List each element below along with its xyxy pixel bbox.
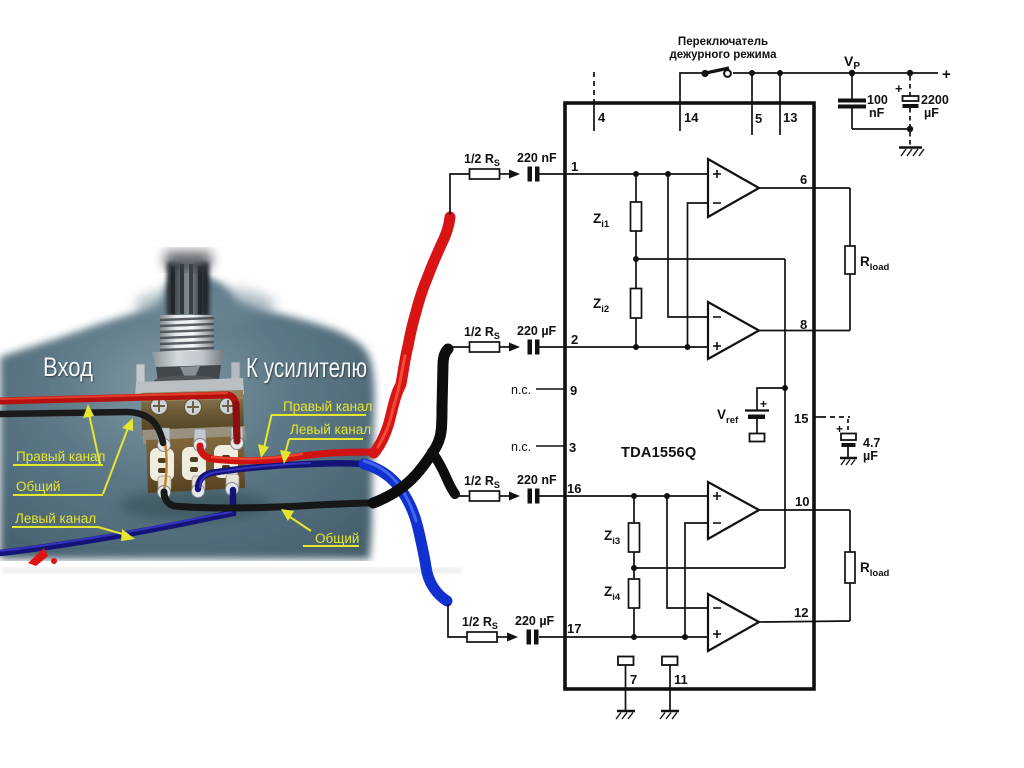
- potentiometer threaded bushing: [160, 315, 214, 355]
- potentiometer lower body (tan with embossed marks): [146, 436, 245, 493]
- wire: 100nF cap to ground rail: [851, 109, 853, 130]
- label: Левый канал (right side) with leader arrow to navy wire: [280, 422, 371, 464]
- svg-text:2200: 2200: [921, 93, 949, 107]
- white mask below photo area: [0, 561, 520, 606]
- impedance Zi4: [629, 579, 640, 608]
- middle terminal lugs with solder balls: [158, 427, 244, 452]
- wire cap to IC pin 17: [539, 636, 708, 638]
- svg-text:Вход: Вход: [43, 352, 93, 382]
- junction dot pin13 top: [777, 70, 783, 76]
- svg-text:7: 7: [630, 672, 637, 687]
- arrow into C5: [509, 492, 520, 501]
- IC U1 TDA1556Q outline: [565, 103, 814, 689]
- wire: Zi1 bottom to Zi2 top: [635, 231, 637, 289]
- label: Правый канал (left side) with leader arrow to red wire: [13, 404, 105, 465]
- wire: thick red cable rising to pin 1 input: [374, 217, 450, 453]
- wire: black fork tip to resistor: [451, 495, 470, 497]
- wire: Rload1 top lead: [849, 188, 851, 246]
- input network row pin 16: [451, 491, 708, 501]
- pin 13 stub: [779, 73, 781, 135]
- op-amp A4: [708, 594, 759, 651]
- svg-text:Общий: Общий: [315, 531, 359, 546]
- bottom terminal lugs with solder balls: [158, 474, 240, 499]
- wire: standby switch to Vp rail: [733, 72, 938, 74]
- wire: Zi4 bottom to pin17 rail: [633, 608, 635, 637]
- svg-text:µF: µF: [863, 449, 878, 463]
- svg-text:6: 6: [800, 172, 807, 187]
- junction dot pin1/Zi1: [633, 171, 639, 177]
- svg-text:К усилителю: К усилителю: [246, 352, 367, 383]
- svg-text:16: 16: [567, 481, 581, 496]
- impedance Zi2: [631, 289, 642, 319]
- svg-text:nF: nF: [869, 106, 885, 120]
- junction dot A1 inverting/pin2: [685, 344, 691, 350]
- junction dot 2200uF bottom: [907, 126, 913, 132]
- wire: black left input: [0, 412, 163, 443]
- junction dot pin16/Zi3: [631, 493, 637, 499]
- svg-text:µF: µF: [924, 106, 939, 120]
- wire: opamp A4 inverting input from pin16 rail: [667, 496, 708, 608]
- wire cap to IC pin 1: [539, 173, 708, 175]
- wire: Zi2 bottom to pin2 rail: [635, 318, 637, 347]
- wire: thick black cable stem and fork: [373, 349, 455, 503]
- svg-text:n.c.: n.c.: [511, 383, 531, 397]
- wire: Rload2 bottom lead: [849, 583, 851, 621]
- svg-text:100: 100: [867, 93, 888, 107]
- wire: Vref battery tap: [757, 388, 785, 410]
- wire: output pin 6: [759, 187, 850, 189]
- svg-text:12: 12: [794, 605, 808, 620]
- svg-text:5: 5: [755, 111, 762, 126]
- wire: opamp A3 inverting input to pin17 rail: [685, 523, 708, 637]
- svg-text:Правый канал: Правый канал: [16, 449, 105, 464]
- svg-text:+: +: [895, 81, 903, 96]
- wire: navy left input (left channel): [0, 490, 233, 553]
- potentiometer hex nut: [152, 350, 224, 387]
- wire: ground rail under supply caps: [852, 128, 910, 130]
- wire: red input across pot top down to right lug: [0, 393, 237, 441]
- resistor R2 1/2 Rs: [470, 342, 500, 352]
- wire: black cable tip to resistor: [452, 346, 470, 348]
- wire: thick blue cable to pin 17 input: [364, 461, 447, 601]
- capacitor C3 220nF: [528, 167, 540, 182]
- svg-text:10: 10: [795, 494, 809, 509]
- ground symbol below supply caps: [899, 148, 924, 157]
- potentiometer top plate with ears: [135, 362, 244, 397]
- label: Общий (right side) with leader arrow to black wire: [281, 509, 359, 546]
- svg-text:9: 9: [570, 383, 577, 398]
- wire: output pin 12: [759, 621, 850, 622]
- wire: pin 11 lead to ground: [669, 665, 671, 710]
- svg-text:Общий: Общий: [16, 479, 60, 494]
- impedance Zi3: [629, 523, 640, 552]
- svg-text:Левый канал: Левый канал: [15, 511, 96, 526]
- svg-text:1: 1: [571, 159, 578, 174]
- capacitor C7 4.7uF: [836, 422, 856, 457]
- arrow into C3: [509, 170, 520, 179]
- resistor R1 1/2 Rs: [470, 169, 500, 179]
- wire: dashed leads of 2200uF cap: [909, 76, 911, 96]
- svg-text:+: +: [942, 66, 951, 83]
- pin 4 stub: [593, 103, 595, 131]
- svg-text:3: 3: [569, 440, 576, 455]
- svg-text:220 µF: 220 µF: [515, 614, 555, 628]
- svg-text:Переключатель: Переключатель: [678, 36, 768, 48]
- svg-text:дежурного режима: дежурного режима: [669, 49, 777, 61]
- svg-text:220 µF: 220 µF: [517, 324, 557, 338]
- junction dot Zi2/pin2: [633, 344, 639, 350]
- wire: blue cable tip down to pin17 row: [448, 604, 467, 637]
- wire: Vref vertical rail: [784, 259, 786, 568]
- wire to arrow: [497, 636, 508, 638]
- svg-text:4: 4: [598, 110, 606, 125]
- wire: Zi1 top lead: [635, 174, 637, 202]
- svg-text:220 nF: 220 nF: [517, 151, 557, 165]
- junction dot Zi3/Zi4 midpoint: [631, 565, 637, 571]
- svg-text:Правый канал: Правый канал: [283, 399, 372, 414]
- svg-text:14: 14: [684, 110, 699, 125]
- pin 7 tab: [618, 657, 634, 666]
- wire to arrow: [500, 495, 511, 497]
- svg-text:4.7: 4.7: [863, 436, 880, 450]
- wire cap to IC pin 16: [539, 495, 708, 497]
- wire: pin 7 lead to ground: [625, 665, 627, 710]
- junction dot pin1/A2 inverting: [665, 171, 671, 177]
- junction dot Vref tap: [782, 385, 788, 391]
- arrow into C4: [509, 343, 520, 352]
- impedance Zi1: [631, 202, 642, 231]
- wire: navy right segment from pot wiper to blue cable: [198, 463, 365, 489]
- wire: Zi3 top lead: [633, 496, 635, 523]
- svg-text:Левый канал: Левый канал: [290, 422, 371, 437]
- pin 3 n.c. stub: [511, 440, 576, 455]
- voltage source Vref: [745, 397, 769, 442]
- svg-text:+: +: [760, 397, 767, 411]
- capacitor C1 100nF plates: [838, 99, 866, 109]
- wire: Vp node to 100nF cap: [851, 73, 853, 99]
- label: Правый канал (right side) with leader arrow to red wire: [258, 399, 372, 458]
- ground symbol pin 11: [660, 711, 679, 719]
- potentiometer middle flange: [142, 426, 246, 444]
- svg-text:TDA1556Q: TDA1556Q: [621, 445, 696, 461]
- wire: upper feedback tap to Vref rail: [636, 258, 785, 260]
- wire: Zi3 bottom to Zi4 top: [633, 552, 635, 579]
- svg-text:8: 8: [800, 317, 807, 332]
- capacitor C6 220uF: [527, 630, 539, 645]
- junction dot Zi1/Zi2 midpoint: [633, 256, 639, 262]
- pin 11 tab: [662, 657, 678, 666]
- potentiometer upper body (bronze): [141, 390, 244, 436]
- capacitor C2 2200uF plates: [895, 81, 919, 108]
- op-amp A1: [708, 159, 759, 217]
- junction dot pin16/A4 inverting: [664, 493, 670, 499]
- junction dot 2200uF top: [907, 70, 913, 76]
- op-amp A3: [708, 482, 759, 539]
- wire to arrow: [500, 173, 511, 175]
- shadow under pot body: [120, 489, 270, 521]
- wire: lower feedback tap to Vref rail: [634, 567, 785, 569]
- junction dot pin5 top: [749, 70, 755, 76]
- resistor Rload2: [845, 552, 855, 583]
- orange jumper wire on pot: [164, 437, 167, 491]
- wire: output pin 10: [759, 509, 850, 511]
- input network row pin 17: [448, 604, 708, 642]
- pin 9 n.c. stub: [511, 383, 577, 398]
- wire: Rload1 bottom lead: [849, 274, 851, 331]
- svg-text:2: 2: [571, 332, 578, 347]
- wire: Rload2 top lead: [849, 510, 851, 552]
- label: Общий (left side) with leader arrow to black wire: [13, 418, 133, 495]
- pin 5 stub: [751, 73, 753, 135]
- resistor Rload1: [845, 246, 855, 274]
- input network row pin 1: [450, 169, 708, 215]
- wire: red output from pot wiper to amplifier: [200, 446, 374, 461]
- capacitor C4 220uF: [528, 340, 540, 355]
- background photo blob of potentiometer illustration: [0, 274, 375, 559]
- wire: black common output from pot: [164, 492, 373, 508]
- svg-text:n.c.: n.c.: [511, 440, 531, 454]
- wire: red cable tip up to pin1 row: [450, 174, 470, 215]
- node Vp junction dot: [849, 70, 855, 76]
- junction dot Zi4/pin17: [631, 634, 637, 640]
- op-amp A2: [708, 302, 759, 359]
- resistor R3 1/2 Rs: [470, 491, 500, 501]
- capacitor C5 220nF: [528, 489, 540, 504]
- junction dot A3 inverting/pin17: [682, 634, 688, 640]
- svg-text:13: 13: [783, 110, 797, 125]
- switch S1 (standby): [701, 68, 730, 77]
- wire: output pin 8: [759, 330, 850, 332]
- pin 14 stub and riser: [680, 73, 703, 131]
- svg-text:220 nF: 220 nF: [517, 473, 557, 487]
- ground symbol below 4.7uF: [840, 458, 857, 465]
- pin 15 dashed lead: [814, 417, 850, 433]
- rear terminal screws on pot: [151, 398, 237, 416]
- wire: opamp A1 inverting input to pin2 rail: [688, 203, 709, 347]
- potentiometer shaft (knurled): [165, 252, 211, 316]
- wire cap to IC pin 2: [539, 346, 708, 348]
- faint scan smudge below photo: [2, 568, 462, 573]
- resistor R4 1/2 Rs: [467, 632, 497, 642]
- svg-text:11: 11: [674, 672, 688, 687]
- red mark at bottom left: [28, 548, 57, 566]
- wire: opamp A2 inverting input from pin1 rail: [668, 174, 708, 317]
- input network row pin 2: [452, 342, 708, 352]
- label: Левый канал (left side) with leader arrow to navy wire: [12, 511, 135, 541]
- wire to arrow: [500, 346, 511, 348]
- arrow into C6: [507, 633, 518, 642]
- ground symbol pin 7: [616, 711, 635, 719]
- svg-text:17: 17: [567, 621, 581, 636]
- svg-text:15: 15: [794, 411, 808, 426]
